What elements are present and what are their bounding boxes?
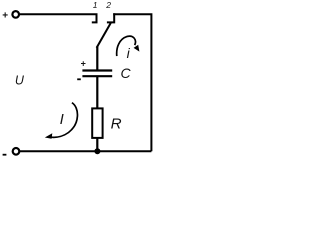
switch S1 blade: [97, 23, 111, 48]
arrow i curved: [117, 36, 136, 56]
arrow I head: [45, 133, 53, 139]
switch contact 2: [107, 13, 114, 22]
svg-text:R: R: [111, 115, 122, 132]
switch contact 1: [92, 13, 97, 22]
wire right: [113, 14, 151, 151]
wire center branch middle: [96, 76, 98, 108]
capacitor C plate top: [82, 69, 112, 71]
terminal T1: [12, 11, 19, 18]
svg-text:U: U: [15, 74, 25, 88]
svg-text:1: 1: [93, 0, 98, 10]
capacitor polarity -: [77, 78, 81, 80]
terminal T2: [13, 148, 20, 155]
svg-text:I: I: [60, 111, 64, 128]
resistor R: [92, 108, 102, 137]
wire center branch upper: [96, 47, 98, 71]
minus sign source negative: [3, 154, 7, 156]
wire center branch lower: [96, 138, 98, 151]
wire bottom: [19, 150, 151, 152]
svg-text:+: +: [2, 11, 8, 22]
svg-text:+: +: [81, 59, 86, 69]
svg-text:2: 2: [105, 0, 111, 10]
arrow i head: [134, 45, 140, 52]
arrow I curved: [51, 103, 77, 138]
wire top: [19, 13, 95, 15]
node junction: [94, 148, 100, 154]
capacitor C plate bottom: [82, 75, 112, 77]
svg-text:C: C: [121, 65, 132, 81]
